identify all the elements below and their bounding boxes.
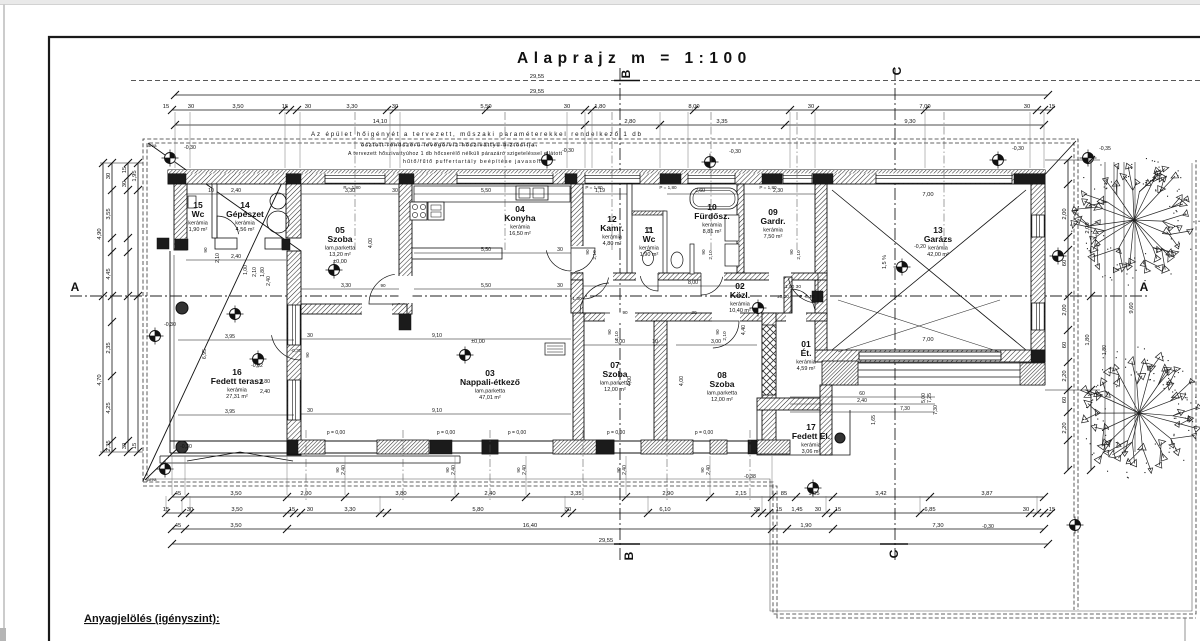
left wall corner block — [157, 238, 169, 249]
svg-text:30: 30 — [565, 507, 571, 513]
west wall of living room — [287, 251, 301, 455]
garage apron steps — [829, 363, 1045, 385]
svg-text:Anyagjelölés (igényszint):: Anyagjelölés (igényszint): — [84, 613, 220, 625]
benchmark symbols — [162, 150, 179, 167]
wall 08 right — [762, 313, 776, 441]
wc15 basin — [188, 196, 196, 208]
svg-text:13,20 m²: 13,20 m² — [329, 252, 351, 258]
bath cabinets — [725, 215, 739, 241]
svg-text:2,40: 2,40 — [622, 465, 628, 475]
wall 07|08 — [654, 321, 667, 441]
svg-text:90: 90 — [607, 329, 612, 335]
svg-text:30: 30 — [392, 104, 398, 110]
wall 05 south — [301, 304, 407, 314]
svg-text:30: 30 — [106, 173, 112, 179]
svg-text:30: 30 — [691, 310, 697, 315]
terrace column 2 — [176, 441, 188, 453]
top wall windows — [325, 171, 385, 183]
svg-text:30: 30 — [392, 188, 398, 194]
svg-text:10: 10 — [652, 339, 658, 345]
svg-text:Fedett terasz: Fedett terasz — [211, 376, 263, 386]
wc11 toilet — [643, 251, 654, 266]
right chain 1 — [1062, 156, 1072, 474]
svg-text:90: 90 — [622, 310, 628, 315]
svg-text:9,10: 9,10 — [432, 333, 442, 339]
svg-text:15: 15 — [289, 507, 295, 513]
svg-text:15: 15 — [282, 104, 288, 110]
svg-text:3,50: 3,50 — [232, 104, 243, 110]
svg-text:p = 0,00: p = 0,00 — [607, 430, 625, 436]
svg-text:-0,35: -0,35 — [1099, 146, 1111, 152]
svg-text:60: 60 — [1062, 342, 1068, 348]
exterior left wall — [174, 184, 187, 250]
svg-text:90: 90 — [445, 467, 450, 473]
svg-text:kerámia: kerámia — [702, 223, 723, 229]
svg-text:Gépészet: Gépészet — [226, 209, 264, 219]
svg-text:Wc: Wc — [643, 234, 656, 244]
svg-text:60: 60 — [859, 391, 865, 397]
svg-text:4,40: 4,40 — [741, 325, 747, 335]
svg-text:2,60: 2,60 — [695, 188, 705, 194]
svg-text:Szoba: Szoba — [709, 379, 734, 389]
page chrome left edge — [3, 4, 5, 641]
wall between 14 and 05 — [286, 184, 301, 238]
svg-text:2,40: 2,40 — [231, 254, 241, 260]
svg-text:2,10: 2,10 — [592, 250, 598, 260]
svg-text:3,95: 3,95 — [225, 409, 235, 415]
svg-text:30: 30 — [307, 408, 313, 414]
svg-text:Közl.: Közl. — [730, 290, 750, 300]
door arcs — [583, 273, 609, 299]
svg-text:2,10: 2,10 — [722, 331, 728, 341]
svg-text:2,35: 2,35 — [106, 440, 112, 451]
svg-text:30: 30 — [808, 104, 814, 110]
svg-text:3,50: 3,50 — [230, 523, 241, 529]
svg-text:-0,30: -0,30 — [164, 322, 176, 328]
corridor east wall stub — [784, 277, 792, 313]
svg-text:90: 90 — [616, 467, 621, 473]
wall 03|07 — [573, 313, 584, 441]
svg-text:Nappali-étkező: Nappali-étkező — [460, 377, 520, 387]
svg-text:6,95: 6,95 — [202, 349, 208, 359]
svg-text:A: A — [1140, 280, 1149, 294]
room label 17 Fedett El. — [792, 422, 830, 455]
svg-text:1,30: 1,30 — [572, 296, 582, 302]
svg-text:hűtő/fűtő puffertartály beépít: hűtő/fűtő puffertartály beépítése javaso… — [403, 159, 543, 165]
svg-text:P = 1,80: P = 1,80 — [759, 185, 777, 190]
svg-text:lam.parketta: lam.parketta — [707, 391, 738, 397]
svg-text:2,40: 2,40 — [231, 188, 241, 194]
garage west wall — [815, 184, 827, 350]
corridor south wall — [573, 313, 827, 321]
svg-text:2,90: 2,90 — [662, 491, 673, 497]
svg-text:2,40: 2,40 — [266, 276, 272, 286]
svg-text:Garázs: Garázs — [924, 234, 953, 244]
svg-text:kerámia: kerámia — [928, 246, 949, 252]
svg-text:9,30: 9,30 — [904, 119, 915, 125]
svg-text:27,31 m²: 27,31 m² — [226, 394, 248, 400]
svg-text:Fedett El.: Fedett El. — [792, 431, 830, 441]
svg-text:15: 15 — [1049, 507, 1055, 513]
svg-text:2,10: 2,10 — [708, 250, 714, 260]
svg-text:4,00: 4,00 — [679, 376, 685, 386]
svg-text:45: 45 — [175, 523, 181, 529]
room label 11 Wc — [639, 225, 660, 258]
room label 08 Szoba — [707, 370, 738, 403]
svg-text:7,30: 7,30 — [900, 406, 910, 412]
svg-text:30: 30 — [307, 333, 313, 339]
svg-text:kerámia: kerámia — [796, 360, 817, 366]
svg-text:p = 0,00: p = 0,00 — [327, 430, 345, 436]
room label 04 Konyha — [504, 204, 535, 237]
insulation band top wall — [168, 170, 1045, 173]
room label 10 Fürdősz. — [694, 202, 729, 235]
svg-text:30: 30 — [305, 104, 311, 110]
top wall pillars — [168, 170, 186, 184]
svg-text:Alaprajz m = 1:100: Alaprajz m = 1:100 — [517, 50, 752, 67]
wall 10|09 — [737, 184, 744, 273]
right parcel vertical lines — [1105, 162, 1135, 452]
svg-text:30: 30 — [564, 104, 570, 110]
svg-text:kerámia: kerámia — [227, 388, 248, 394]
svg-text:kerámia: kerámia — [639, 246, 660, 252]
terrace column 1 — [176, 302, 188, 314]
bath toilet — [671, 252, 683, 268]
svg-text:3,30: 3,30 — [341, 283, 351, 289]
entrance small dims — [790, 397, 935, 412]
svg-text:47,01 m²: 47,01 m² — [479, 395, 501, 401]
top dim row segments — [163, 104, 1055, 114]
svg-text:90: 90 — [335, 467, 340, 473]
svg-text:1,5 %: 1,5 % — [882, 255, 888, 269]
svg-text:2,20: 2,20 — [1062, 422, 1068, 433]
left chain 4 — [132, 159, 142, 456]
boiler tanks — [270, 193, 286, 209]
svg-text:kerámia: kerámia — [510, 225, 531, 231]
svg-text:3,30: 3,30 — [346, 104, 357, 110]
svg-text:30: 30 — [1023, 507, 1029, 513]
svg-text:2,15: 2,15 — [735, 491, 746, 497]
svg-text:Szoba: Szoba — [327, 234, 352, 244]
kitchen island — [412, 248, 502, 259]
svg-text:Fürdősz.: Fürdősz. — [694, 211, 729, 221]
svg-text:1,95: 1,95 — [132, 170, 138, 181]
svg-text:15: 15 — [122, 167, 128, 173]
svg-text:2,00: 2,00 — [1062, 304, 1068, 315]
svg-text:4,00: 4,00 — [627, 376, 633, 386]
svg-text:C: C — [887, 549, 901, 558]
svg-text:15: 15 — [132, 443, 138, 449]
svg-text:90: 90 — [789, 249, 794, 255]
svg-text:90: 90 — [380, 283, 386, 288]
room label 16 Fedett terasz — [211, 367, 263, 400]
svg-text:Szoba: Szoba — [602, 369, 627, 379]
svg-text:30: 30 — [815, 507, 821, 513]
svg-text:3,80: 3,80 — [260, 379, 270, 385]
svg-text:2,40: 2,40 — [341, 465, 347, 475]
room label 15 Wc — [188, 200, 209, 233]
top dim row 29,55 — [171, 89, 1052, 99]
wall between 15 and 14 — [212, 184, 217, 238]
svg-text:p = 0,00: p = 0,00 — [695, 430, 713, 436]
roof slope diagonal over terrace 1 — [148, 143, 301, 251]
svg-text:3,87: 3,87 — [981, 491, 992, 497]
corridor north wall — [571, 273, 827, 280]
exterior top wall — [168, 170, 1045, 184]
svg-text:kerámia: kerámia — [801, 443, 822, 449]
terrace north wall — [215, 238, 237, 249]
plot boundary dashed (outer) — [143, 139, 1078, 610]
dining table — [545, 343, 565, 355]
left chain outer — [97, 159, 107, 456]
svg-text:Konyha: Konyha — [504, 213, 535, 223]
svg-text:-0,30: -0,30 — [291, 348, 302, 354]
entrance steps — [822, 361, 858, 385]
south-east corner block — [757, 440, 790, 454]
svg-text:-0,30: -0,30 — [562, 148, 574, 154]
svg-text:4,25: 4,25 — [106, 402, 112, 413]
svg-text:1,65: 1,65 — [871, 415, 877, 425]
svg-text:A tervezett hőszivattyúhoz 1 d: A tervezett hőszivattyúhoz 1 db hőcserél… — [348, 151, 563, 157]
svg-text:4,45: 4,45 — [106, 268, 112, 279]
room label 01 Ét. — [796, 339, 817, 372]
svg-text:5,50: 5,50 — [480, 104, 491, 110]
svg-text:3,00: 3,00 — [711, 339, 721, 345]
svg-text:30: 30 — [557, 283, 563, 289]
room label 09 Gardr. — [760, 207, 785, 240]
svg-text:7,50 m²: 7,50 m² — [764, 234, 783, 240]
svg-text:4,70: 4,70 — [97, 374, 103, 385]
svg-text:10: 10 — [208, 188, 214, 194]
left chain inner — [106, 159, 116, 456]
svg-text:6,85: 6,85 — [924, 507, 935, 513]
svg-text:85: 85 — [781, 491, 787, 497]
garage south wall — [815, 350, 1045, 362]
svg-text:kerámia: kerámia — [763, 228, 784, 234]
svg-text:1,00 30: 1,00 30 — [785, 284, 801, 290]
svg-text:B: B — [622, 551, 636, 560]
svg-text:C: C — [890, 66, 904, 75]
svg-text:8,00: 8,00 — [688, 104, 699, 110]
svg-text:9,10: 9,10 — [432, 408, 442, 414]
svg-text:3,50: 3,50 — [230, 491, 241, 497]
kitchen counter sink — [516, 186, 548, 200]
garage X diagonals — [832, 190, 1026, 350]
svg-text:30: 30 — [307, 507, 313, 513]
svg-text:90: 90 — [203, 247, 208, 253]
left chain 3 — [122, 159, 132, 456]
diagonal top-right corner to garage — [1040, 141, 1076, 180]
svg-text:30: 30 — [122, 181, 128, 187]
svg-text:15: 15 — [1049, 104, 1055, 110]
svg-text:p = 0,00: p = 0,00 — [508, 430, 526, 436]
svg-text:B: B — [619, 69, 633, 78]
svg-text:P = 1,80: P = 1,80 — [343, 185, 361, 190]
room label 07 Szoba — [600, 360, 631, 393]
svg-text:3,50: 3,50 — [231, 507, 242, 513]
south facade wall blocks — [288, 440, 325, 454]
svg-text:16,40: 16,40 — [523, 523, 538, 529]
svg-text:2,40: 2,40 — [522, 465, 528, 475]
Wc box walls — [632, 211, 665, 215]
svg-text:7,30: 7,30 — [933, 405, 939, 415]
svg-text:60: 60 — [1062, 260, 1068, 266]
svg-text:kerámia: kerámia — [235, 221, 256, 227]
svg-text:10,40 m²: 10,40 m² — [729, 308, 751, 314]
svg-text:kerámia: kerámia — [188, 221, 209, 227]
axis dashed line top (29,55 baseline) — [131, 80, 1200, 82]
svg-text:7,30: 7,30 — [932, 523, 943, 529]
svg-text:3,30: 3,30 — [344, 507, 355, 513]
garage east wall — [1031, 184, 1045, 362]
svg-text:kerámia: kerámia — [730, 302, 751, 308]
svg-text:7,25: 7,25 — [927, 393, 933, 403]
right chain 2 — [1085, 156, 1095, 474]
svg-text:2,10: 2,10 — [614, 331, 620, 341]
svg-text:lam.parketta: lam.parketta — [475, 389, 506, 395]
svg-text:4,59 m²: 4,59 m² — [797, 366, 816, 372]
svg-text:4,90: 4,90 — [97, 228, 103, 239]
svg-text:±0,00: ±0,00 — [333, 259, 347, 265]
svg-text:1,80: 1,80 — [1085, 334, 1091, 345]
svg-text:3,55: 3,55 — [106, 208, 112, 219]
svg-text:2,35: 2,35 — [106, 342, 112, 353]
svg-text:3,95: 3,95 — [225, 334, 235, 340]
svg-text:45: 45 — [175, 491, 181, 497]
svg-text:30: 30 — [122, 443, 128, 449]
svg-text:±0,00: ±0,00 — [777, 294, 789, 300]
svg-text:15: 15 — [835, 507, 841, 513]
svg-text:2,40: 2,40 — [260, 389, 270, 395]
svg-text:2,00: 2,00 — [1062, 208, 1068, 219]
svg-text:90: 90 — [715, 329, 720, 335]
svg-text:8,00: 8,00 — [688, 280, 698, 286]
svg-text:90: 90 — [700, 467, 705, 473]
kitchen counter — [414, 186, 570, 202]
bottom dim row 1 — [168, 491, 1048, 501]
axis C vertical dash-dot — [894, 68, 896, 562]
svg-text:7,00: 7,00 — [922, 337, 933, 343]
svg-text:1,00: 1,00 — [243, 265, 249, 275]
svg-text:60: 60 — [1062, 397, 1068, 403]
svg-text:2,10: 2,10 — [215, 253, 221, 263]
svg-text:p = 0,00: p = 0,00 — [437, 430, 455, 436]
svg-text:15: 15 — [163, 104, 169, 110]
svg-text:29,55: 29,55 — [530, 74, 545, 80]
fedett el east wall — [820, 385, 832, 455]
svg-text:±0,00: ±0,00 — [471, 339, 485, 345]
svg-text:Gardr.: Gardr. — [760, 216, 785, 226]
svg-text:30: 30 — [754, 507, 760, 513]
svg-text:-0,30: -0,30 — [1012, 146, 1024, 152]
svg-text:16,50 m²: 16,50 m² — [509, 231, 531, 237]
svg-text:5,50: 5,50 — [481, 188, 491, 194]
svg-text:1,80: 1,80 — [594, 104, 605, 110]
svg-text:7,00: 7,00 — [922, 192, 933, 198]
svg-text:1,90: 1,90 — [800, 523, 811, 529]
svg-text:1,80: 1,80 — [260, 267, 266, 277]
witness lines bottom — [172, 456, 772, 495]
svg-text:1,45: 1,45 — [791, 507, 802, 513]
svg-text:90: 90 — [305, 352, 310, 358]
svg-text:P = 1,80: P = 1,80 — [659, 185, 677, 190]
svg-text:29,55: 29,55 — [530, 89, 545, 95]
svg-text:2,10: 2,10 — [796, 250, 802, 260]
diagonal bottom-left corner — [145, 446, 180, 480]
svg-text:3,35: 3,35 — [716, 119, 727, 125]
svg-text:kerámia: kerámia — [602, 235, 623, 241]
note text block — [311, 131, 642, 165]
svg-text:1,05: 1,05 — [808, 491, 819, 497]
svg-text:8,81 m²: 8,81 m² — [703, 229, 722, 235]
svg-text:A: A — [71, 280, 80, 294]
svg-text:1,90 m²: 1,90 m² — [189, 227, 208, 233]
bottom dim row 3 — [168, 523, 1048, 533]
svg-text:2,40: 2,40 — [857, 398, 867, 404]
svg-text:30: 30 — [557, 247, 563, 253]
tree 1 — [1069, 163, 1194, 275]
top dim row 2 — [171, 119, 1048, 129]
room label 12 Kamr. — [600, 214, 624, 247]
svg-text:3,35: 3,35 — [570, 491, 581, 497]
svg-text:5,50: 5,50 — [481, 247, 491, 253]
kitchen wall lower segment — [571, 280, 583, 313]
bathtub — [690, 188, 738, 209]
room label 14 Gépészet — [226, 200, 264, 233]
tree 2 — [1080, 352, 1200, 473]
svg-text:3,80: 3,80 — [395, 491, 406, 497]
svg-text:lam.parketta: lam.parketta — [325, 246, 356, 252]
svg-text:90: 90 — [585, 249, 590, 255]
svg-text:1,90 m²: 1,90 m² — [640, 252, 659, 258]
svg-text:9,60: 9,60 — [1129, 302, 1135, 313]
svg-text:3,42: 3,42 — [875, 491, 886, 497]
terrace eave outline — [160, 452, 460, 463]
roof slope diagonal over terrace 2 — [143, 174, 286, 481]
svg-text:P = 1,80: P = 1,80 — [585, 185, 603, 190]
svg-text:6,10: 6,10 — [659, 507, 670, 513]
axis A horizontal dash-dot — [70, 295, 1148, 297]
svg-text:15: 15 — [776, 507, 782, 513]
fence stub bottom right — [1184, 618, 1186, 641]
svg-text:2,0: 2,0 — [647, 226, 652, 233]
bottom dim row 2 — [162, 507, 1055, 517]
witness lines top — [175, 112, 1044, 168]
room label 02 Közl. — [729, 281, 751, 314]
svg-text:12,00 m²: 12,00 m² — [604, 387, 626, 393]
svg-text:7,00: 7,00 — [919, 104, 930, 110]
window axis dash-dot verticals — [355, 112, 944, 250]
svg-text:2,40: 2,40 — [706, 465, 712, 475]
svg-text:Wc: Wc — [192, 209, 205, 219]
svg-text:29,55: 29,55 — [599, 538, 614, 544]
svg-text:2,20: 2,20 — [1062, 370, 1068, 381]
svg-text:-0,30: -0,30 — [729, 149, 741, 155]
17 north wall — [757, 398, 830, 410]
svg-text:área: área — [147, 477, 157, 482]
svg-text:4,56 m²: 4,56 m² — [236, 227, 255, 233]
svg-text:2,40: 2,40 — [451, 465, 457, 475]
garage apron X — [838, 300, 1000, 352]
entrance column — [835, 433, 845, 443]
svg-text:F -0,10: F -0,10 — [799, 294, 815, 300]
bottom dim row 4 — [168, 538, 1052, 548]
room label 13 Garázs — [924, 225, 953, 258]
wall kitchen right / 12 left — [571, 184, 583, 273]
svg-text:30: 30 — [1024, 104, 1030, 110]
svg-text:-0,30: -0,30 — [180, 444, 192, 450]
svg-text:4,00: 4,00 — [368, 238, 374, 248]
